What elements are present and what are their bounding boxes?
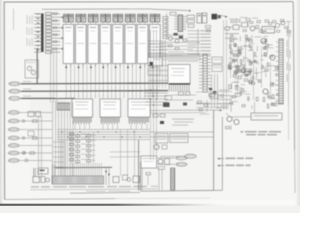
left side boxes M-110 [148,58,162,67]
junction dots mid grid [150,89,151,90]
wire from J4 [20,129,53,131]
IC U6 divider (tall) [125,25,136,64]
boxes VR right of CN2 [212,57,222,64]
connector jack J8 (left edge) [8,159,19,163]
power bus wire a [21,82,168,85]
sheet border frame [4,2,295,200]
CN2 pin stubs [199,56,211,88]
tiny text row above [168,61,198,62]
vertical wires x50-57 [50,50,52,103]
amplifier parts mesh [228,35,280,112]
note text two lines [241,131,244,133]
thick vertical feed wire [36,48,38,84]
rotated text right edge [287,28,288,36]
wire pair with arrows right of rail [105,168,107,185]
IC M2 keyer box [100,99,121,117]
parts center-low [179,92,184,95]
IC M208 bottom pins [169,85,189,90]
transistor Q12 [263,89,268,94]
wires to foot switch [230,116,251,118]
wire bundle vertical left-lower [52,101,54,183]
wires into strip left [33,168,35,177]
value note box 1 [155,134,168,144]
bus grid below center [145,90,168,105]
wire bus from U4 [102,69,104,99]
top-right small parts [257,21,261,23]
AC oval label [185,154,196,158]
dense cluster below M252 [174,33,178,36]
IC U5 top-octave label boxes [113,14,118,22]
value note box 2 [170,134,188,143]
IC U2 divider (tall) [76,25,87,64]
wires in resistor bank [71,132,73,163]
connector jack J2 (left edge) [8,111,19,115]
connector jack J7 (left edge) [8,151,19,155]
junction dots on buses [61,131,62,132]
wire with arrow (top bus to amp) [152,9,188,10]
bus line top [42,8,152,10]
vertical dark pair [138,140,140,191]
wire right edge vertical [288,22,290,105]
parts cluster mid grid [163,103,170,108]
transistor Q9 [281,21,285,25]
IC U7 divider (tall) [137,25,148,64]
IC U2 top-octave label boxes [76,14,81,22]
transistor Q8 [275,23,279,27]
IC U6 top-octave label boxes [125,14,130,22]
label box T9 [38,168,48,174]
text cluster above boxes [172,119,194,120]
key contact resistor rows [34,13,64,54]
top right cluster [233,25,239,30]
top-right extra marks [231,21,234,23]
IC U1 output pins [65,64,67,68]
contact parts left of rail [33,177,40,183]
hatch block diode array left [57,103,69,110]
vertical wires right section [230,36,232,78]
IC U7 output pins [139,64,141,68]
wire bus from U6 [127,69,129,99]
IC M208 main box [168,65,190,85]
bus bundle horizontal (keying buses) [57,130,214,140]
fuse F1 [158,167,165,170]
wires lower right cluster [226,113,229,116]
wire bus from U2 [78,69,80,99]
transistor Q11 [270,55,275,60]
vertical wires to lower mid [120,130,122,177]
IC U8 output pins [152,64,154,68]
IC U7 top-octave label boxes [138,14,143,22]
IC M2 wires to bus [103,124,118,130]
connector CN4 edge (tall) [279,39,283,104]
transistor pair box Q1 Q2 (dashed) [25,60,39,78]
IC M252 vibrato (vertical) [178,15,183,32]
wire from J3 [20,120,53,122]
power supply box [141,156,157,168]
IC U1 divider (tall) [63,25,73,64]
cap + lamp bottom [123,175,128,180]
IC U8 divider (tall) [150,25,161,64]
parts column left of M252 [166,13,168,40]
transistor Q13 [227,116,232,121]
IC M1 keyer box [72,99,93,117]
IC U3 divider (tall) [88,25,99,64]
crossing bundle left of center [148,41,166,56]
speaker wire arrows + labels [218,158,220,160]
squiggle parts under cluster [168,45,172,47]
arrow marks right of coil [221,16,226,17]
wire bundle feeding keyboard left [67,102,69,176]
IC U3 top-octave label boxes [88,14,93,22]
parts under vibrato boxes [206,26,211,28]
resistor column bank (key resistors) [70,133,96,163]
foot switch box [251,113,282,120]
IC M1 wires to bus [75,124,90,130]
connector jack J5 (left edge) [8,136,19,140]
wire top-left vertical [13,9,15,31]
wire bus from U8 [152,69,154,99]
wires left of bank [60,140,62,176]
small relay boxes left-lower [28,112,34,117]
coil T2 (dark blob) [212,14,218,20]
power transformer T1 [158,159,163,164]
connector bar J1 (dark vertical) [41,14,44,53]
AC plug labels (ovals) [176,156,187,160]
power bus wire c [21,97,55,99]
switch box pair bottom [113,177,119,183]
bus rail above keyboard strip [55,166,112,169]
amplifier enclosure outline [140,162,142,191]
IC U5 divider (tall) [113,25,124,64]
dots under M208 pins [169,90,190,91]
wires lower mid-left horizontals [110,151,141,153]
IC U3 output pins [90,64,92,68]
small caps column left of J1 [37,14,40,50]
vibrato boxes pair [197,14,202,24]
keyboard harness fan [70,163,102,176]
IC U2 output pins [78,64,80,68]
thick bus to diode array [55,97,75,99]
bus pair above main IC [148,53,200,55]
small box bottom mid [133,176,140,183]
IC U8 top-octave label boxes [150,14,155,22]
wire from J2 [20,112,53,114]
wires down right of CN2 [211,74,213,108]
wire from J8 [20,160,53,162]
IC M3 wires to bus [131,124,147,130]
keyboard contact rail strip [52,176,104,184]
connector bar CN3 (vertical hatched) [171,168,175,190]
inline parts on jack wires [33,120,38,122]
wires top right [228,26,233,28]
transistor Q7 [250,26,255,31]
IC U6 output pins [127,64,129,68]
wires right-low of center [196,91,232,93]
tone output rows [188,30,197,32]
wire bus from U1 [65,69,67,99]
IC M3 keyer box [128,99,150,117]
wires mid-lower [150,109,214,112]
wire from J7 [20,152,53,154]
wire bus from U7 [139,69,141,99]
oval label right [224,27,230,30]
wire from J6 [20,145,53,147]
ladder rungs in bundle [53,142,64,167]
CN4 pin stubs left [276,42,279,100]
label strip row [163,57,200,60]
parts cluster under bus [153,114,158,117]
IC M2 pin row [101,117,119,123]
reverb unit box [262,27,275,34]
IC M3 pin row [129,117,149,123]
connector plug P3 (left edge) [9,97,20,101]
connector plug P2 (left edge) [9,89,20,93]
rail label text strip [30,188,158,191]
caps above M252 [170,12,176,15]
IC U5 output pins [115,64,117,68]
wires down from power box [158,168,160,190]
power bus wire b [21,90,168,93]
wire bus from U5 [115,69,117,99]
annotation rotated text left margin [27,15,33,24]
connector plug P1 (left edge) [9,82,20,86]
transistor Q16 [241,68,246,73]
parts cluster near 200,105 [198,101,202,103]
connector jack J6 (left edge) [8,144,19,148]
connector jack J3 (left edge) [8,119,19,123]
parts right-low [210,94,218,99]
wire right margin lower [288,105,290,140]
vertical feed wires center [150,30,152,95]
annotation text (C-GA) [225,33,239,34]
marks near x147 [146,173,151,175]
transistor Q14 [234,119,239,124]
connector jack J4 (left edge) [8,128,19,132]
connector CN2 vertical bar [203,54,207,92]
transistor Q15 [154,144,159,149]
IC U4 output pins [102,64,104,68]
IC U4 top-octave label boxes [101,14,106,22]
IC U1 top-octave label boxes [64,14,69,22]
IC U4 divider (tall) [100,25,111,64]
wire bus from U3 [90,69,92,99]
caps right of M252 [187,15,195,18]
wire from J5 [20,137,53,139]
IC M1 pin row [73,117,91,123]
feed wires into M208 [148,65,168,67]
cluster under CN2 [209,88,212,90]
transistor Q10 [261,38,266,43]
horizontal wires below cluster [160,41,200,43]
